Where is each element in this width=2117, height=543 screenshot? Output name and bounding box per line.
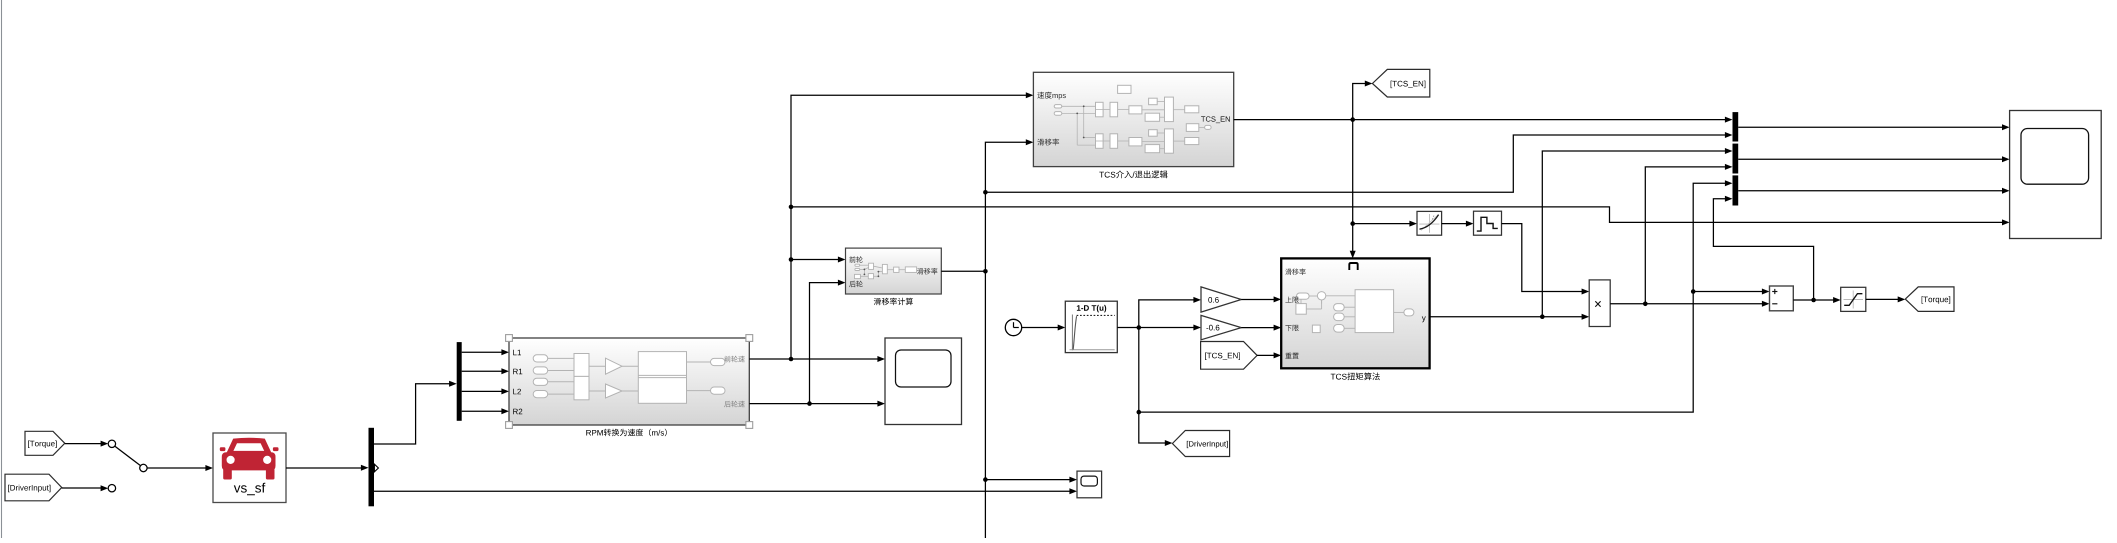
wire DriverInput to switch (62, 485, 108, 491)
label slip ratio calc (874, 298, 913, 306)
lookup table 1-D T(u) (1065, 301, 1117, 352)
goto tag [TCS_EN] (1372, 69, 1429, 97)
wire saturation1 to pulse block (1442, 221, 1474, 227)
subsystem slip ratio calc (846, 248, 942, 294)
from tag [TCS_EN] bottom (1201, 342, 1258, 370)
wire to gain -0.6 (1139, 325, 1201, 331)
wire TCS_EN branch down to torque algo trigger (1350, 120, 1356, 259)
goto tag [DriverInput] (1172, 431, 1229, 457)
wire rear-wheel-speed branch to slip calc input2 (810, 280, 846, 404)
wire front-wheel-speed long branch to scope2 input4 (791, 207, 2010, 226)
pulse shaper block (1474, 211, 1502, 235)
wire mux A output to scope2 (1738, 124, 2009, 130)
wire mux B output to scope2 (1738, 156, 2009, 162)
wire y branch up to mux B input1 (1542, 148, 1732, 317)
wire sum loopback to mux C input2 (1713, 196, 1813, 300)
wire slip ratio branch up to TCS logic input2 (983, 139, 1033, 271)
wire saturation to goto Torque (1866, 296, 1906, 302)
wire pulse block to product input1 (1502, 224, 1590, 295)
manual switch (108, 440, 147, 492)
gain -0.6 (1201, 315, 1241, 339)
saturation dynamic block (1417, 211, 1442, 235)
wire TCS_EN to mux A input1 (1234, 117, 1733, 123)
wire slip ratio output (941, 269, 987, 274)
demux D1 (369, 428, 379, 507)
from tag [DriverInput] (5, 474, 62, 501)
wire product output (1610, 301, 1769, 307)
wire vs_sf to demux1 (286, 465, 369, 471)
wire Torque to switch (65, 441, 108, 447)
wire mux C output to scope2 (1738, 188, 2009, 194)
mux A (1733, 112, 1739, 141)
vehicle block vs_sf (213, 433, 286, 503)
from tag [Torque] (25, 431, 65, 455)
display mini scope (1077, 471, 1102, 498)
wire slip ratio long branch to mux A input2 (985, 132, 1732, 192)
subsystem TCS torque algorithm (1281, 258, 1429, 368)
clock block (1005, 319, 1021, 335)
wire gain -0.6 to lower limit (1241, 325, 1281, 331)
wire front-wheel-speed branch to slip calc input1 (791, 257, 846, 263)
wire TCS_EN branch to saturation1 (1353, 221, 1417, 227)
canvas left border (1, 0, 3, 538)
goto tag [Torque] (1905, 287, 1954, 312)
wire torque algo output y (1430, 314, 1590, 320)
wire product branch up to mux B input2 (1645, 164, 1732, 304)
wire sum output (1793, 297, 1840, 303)
wire driver torque long line to sum and mux C input1 (1139, 180, 1770, 412)
mux C (1733, 175, 1739, 205)
wire TCS_EN to reset port (1257, 352, 1281, 358)
sum block (1770, 286, 1794, 311)
subsystem RPM conversion block (506, 335, 753, 429)
wire RPM rear-wheel-speed to scope1 (749, 401, 885, 407)
wire to gain 0.6 (1139, 297, 1201, 328)
saturation block (1841, 287, 1866, 311)
label RPM block (586, 429, 667, 437)
product block (1589, 280, 1610, 327)
label TCS entry/exit logic (1099, 171, 1167, 179)
wire demux1 out1 to demux2 (374, 381, 457, 444)
wire slip ratio branch down to display input1 (983, 271, 1077, 538)
wire demux1 out2 to display (374, 488, 1077, 494)
wire driver torque to goto DriverInput (1139, 412, 1173, 446)
demux D2 (457, 342, 462, 421)
subsystem TCS entry/exit logic (1033, 72, 1233, 166)
wire clock to lookup table (1022, 325, 1066, 331)
scope2 main (2010, 111, 2102, 239)
wires demux2 to RPM block (462, 349, 509, 414)
wire gain 0.6 to upper limit (1241, 296, 1281, 302)
label TCS torque algorithm (1331, 373, 1380, 381)
wire TCS_EN branch to goto tag (1353, 81, 1373, 120)
wire RPM front-wheel-speed to scope1 (749, 356, 885, 362)
gain 0.6 (1201, 287, 1241, 312)
wire switch to vs_sf (147, 465, 213, 471)
wire front-wheel-speed branch to TCS logic input1 (789, 92, 1034, 359)
wire lookup output junction (1117, 325, 1141, 330)
scope1 wheel speeds (885, 338, 962, 425)
mux B (1733, 144, 1739, 174)
wire driver torque down branch (1137, 328, 1142, 415)
